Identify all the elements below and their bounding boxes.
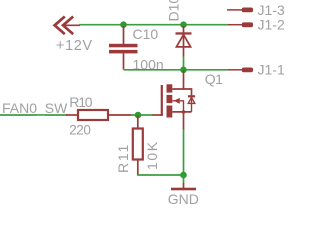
wire Q1 source to ground node bbox=[183, 129, 185, 175]
capacitor C10 bbox=[109, 26, 138, 70]
junction D10 top bbox=[180, 21, 187, 28]
wire to GND symbol bbox=[183, 175, 185, 184]
resistor R11 bbox=[133, 116, 143, 176]
junction ground node bbox=[180, 172, 187, 179]
junction C10 top bbox=[120, 21, 127, 28]
junction D10 bottom bbox=[180, 67, 187, 74]
transistor Q1 bbox=[153, 71, 196, 131]
svg-text:R11: R11 bbox=[115, 143, 131, 173]
pin J1-3 bbox=[227, 8, 253, 13]
diode D10 bbox=[176, 26, 192, 57]
svg-text:GND: GND bbox=[168, 191, 199, 207]
svg-text:R10: R10 bbox=[69, 94, 92, 110]
wire R11 bottom to ground node bbox=[138, 174, 184, 176]
svg-text:J1-2: J1-2 bbox=[258, 17, 285, 33]
resistor R10 bbox=[66, 110, 132, 120]
svg-text:FAN0_SW: FAN0_SW bbox=[2, 100, 68, 116]
wire +12V top rail bbox=[79, 24, 228, 26]
svg-text:10K: 10K bbox=[144, 140, 160, 170]
junction gate node bbox=[135, 112, 142, 119]
wire FAN0_SW net bbox=[0, 114, 67, 116]
power +12V symbol bbox=[55, 17, 80, 35]
pin J1-1 bbox=[228, 68, 253, 73]
svg-text:J1-1: J1-1 bbox=[258, 62, 285, 78]
svg-text:J1-3: J1-3 bbox=[258, 2, 285, 18]
svg-text:C10: C10 bbox=[133, 26, 159, 42]
svg-text:D10: D10 bbox=[166, 0, 182, 22]
pin J1-2 bbox=[228, 22, 253, 27]
wire D10 anode to node bbox=[183, 57, 185, 71]
svg-text:220: 220 bbox=[69, 123, 90, 138]
svg-text:+12V: +12V bbox=[56, 38, 93, 54]
ground GND bbox=[171, 183, 196, 190]
svg-text:Q1: Q1 bbox=[205, 71, 223, 87]
wire R10 to gate node bbox=[131, 114, 153, 116]
wire drain rail bbox=[124, 69, 229, 71]
